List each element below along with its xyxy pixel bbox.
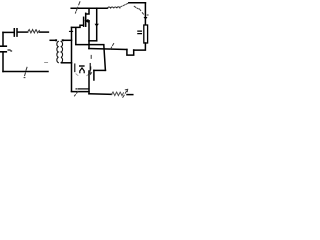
tick remnant crossing A <box>70 30 73 32</box>
wire bus mid section <box>89 49 127 50</box>
variable resistor R3 zigzag <box>112 92 124 96</box>
transformer T1 secondary bottom lead <box>62 62 72 64</box>
transformer T1 secondary top lead <box>64 39 72 41</box>
arrowhead on right wire <box>144 17 148 20</box>
wire capacitor to resistor <box>18 31 28 33</box>
dashed arrow bottom center <box>75 92 78 96</box>
wire source vertical down through bus <box>88 21 90 49</box>
wire right vertical down to load <box>144 3 146 25</box>
wire bottom rail right section <box>89 93 112 96</box>
transformer T1 right winding <box>61 41 62 62</box>
wire battery bottom vertical <box>2 53 4 72</box>
wire lead after variable resistor <box>127 94 133 96</box>
transformer T1 secondary phasing dot <box>62 39 64 41</box>
dashed current arrow beside diode <box>90 55 92 69</box>
label bars (=) left of load <box>138 31 142 33</box>
wire gate feed horizontal <box>72 25 84 27</box>
transformer T1 left winding <box>57 41 58 62</box>
wire V88 vertical right of diode down to rail <box>88 71 90 94</box>
dot left of stub <box>75 88 78 90</box>
dashed arrow annotation above bus <box>111 44 114 49</box>
wire notch hop <box>127 50 134 56</box>
variable resistor arrow diagonal <box>123 89 128 97</box>
wire load bottom to bus <box>134 43 146 50</box>
transistor V1 drain stub <box>86 8 89 14</box>
diode plate bar <box>79 65 85 66</box>
dashed annotation arrow over top-left of transistor <box>75 2 80 13</box>
battery B1 top plate <box>0 45 6 47</box>
dashed annotation dot right of wire <box>146 14 149 16</box>
wire resistor to node <box>40 31 49 33</box>
envelope right arc darkened <box>89 64 91 72</box>
faint remnant dash left of transformer bottom <box>45 62 48 64</box>
wire bottom-left rail <box>3 71 48 73</box>
battery B1 bottom plate <box>0 51 6 53</box>
transistor V1 source arrowhead <box>85 20 88 22</box>
wire H0 connecting to source line <box>89 40 97 42</box>
battery label dot <box>10 50 13 52</box>
battery label mark <box>8 49 10 51</box>
transformer T1 left primary lead <box>50 39 55 41</box>
wire B vertical from gate feed <box>75 28 77 44</box>
wire A long vertical (gate node) <box>71 27 73 91</box>
inductor L1 winding <box>108 7 120 8</box>
dashed arrowhead pointing down <box>89 72 92 75</box>
diode filament <box>80 68 84 73</box>
envelope left arc darkened <box>74 64 76 72</box>
current arrowhead on vertical <box>95 24 99 27</box>
wire short vertical下 x94 <box>93 70 95 80</box>
wire horizontal at y70 <box>94 69 106 71</box>
wire left vertical from corner down to battery <box>2 32 4 45</box>
wire bottom rail from A corner <box>72 91 90 93</box>
wire top rail right section <box>129 2 146 4</box>
transistor V1 channel bar <box>85 13 87 26</box>
dashed annotation arrow near top right <box>134 6 143 14</box>
transistor V1 source stub with arrow <box>86 20 89 22</box>
transformer T1 primary phasing dot <box>55 39 57 41</box>
arrow annotation on left rail <box>24 67 27 77</box>
transistor V1 gate bar <box>83 17 85 26</box>
wire H1 from B to source line <box>76 44 104 46</box>
load resistor box R2 <box>144 25 148 43</box>
wire stub under diode <box>78 88 89 90</box>
diode tube envelope circle <box>76 73 90 76</box>
resistor R1 zigzag <box>28 30 40 33</box>
dashed rise after inductor <box>120 3 127 7</box>
wire junction vertical from top T <box>96 8 98 41</box>
wire top-left horizontal from corner to capacitor <box>3 31 14 33</box>
capacitor C1 plates <box>14 29 17 36</box>
wire diagonal from bus down right <box>104 45 106 70</box>
wire top rail left section <box>71 7 107 9</box>
